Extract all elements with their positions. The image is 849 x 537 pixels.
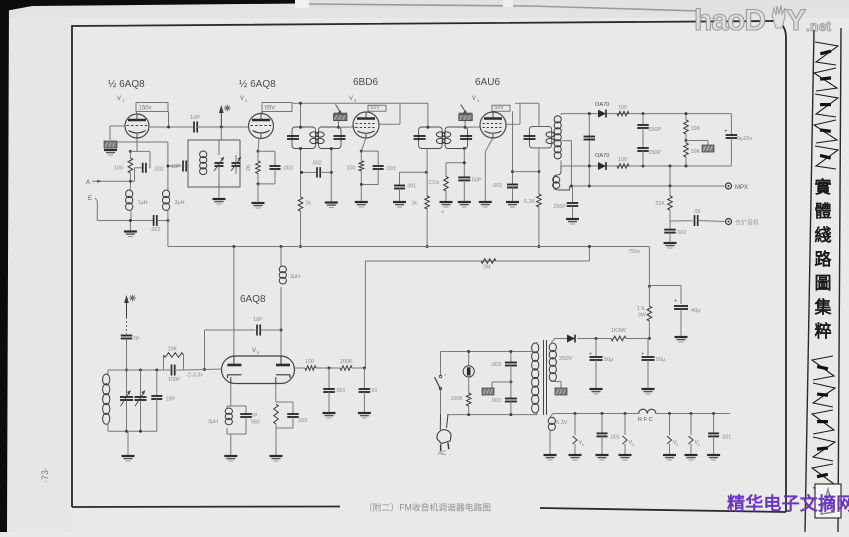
svg-text:50V: 50V [495,105,505,111]
resistor 1K IFT2 return [425,196,430,209]
ground below 50u no1 [590,388,603,390]
capacitor 50P (IFT2 return) [463,147,466,150]
resistor 1K IFT1 return [298,197,303,211]
junction detector node lower [642,165,645,168]
svg-text:10K: 10K [168,347,178,353]
schematic frame [72,21,786,512]
junction cap top [588,112,591,115]
rectifier line [554,338,567,340]
ground below .001 right [707,454,720,456]
wire heater winding to rail [550,414,553,418]
resistor V5 cathode [275,384,277,403]
tube V1 (1/2 6AQ8 RF amp) [125,114,149,138]
ground below right cathode [270,455,283,457]
ground below V4 heater [569,454,582,456]
junction bus IFT1 [299,245,302,248]
svg-text:250P: 250P [553,204,566,210]
scan edge: second notch [503,0,513,7]
wire grid-leak line to 3uH top [110,141,168,143]
junction line-filter mid [509,381,512,384]
grid capacitor of V4 (hatched) [459,112,473,114]
capacitor .003 upper [510,352,512,363]
junction lamp bottom [467,413,470,416]
junction rectifier output [648,337,651,340]
svg-text:1 K: 1 K [637,306,645,312]
svg-text:3W: 3W [638,313,647,319]
scan edge: top-left black wedge [0,0,302,12]
svg-text:10K: 10K [691,149,701,155]
interstage tank box [188,140,240,187]
svg-text:.net: .net [806,18,831,34]
inductor 3uH (RF choke) [163,190,170,198]
resistor 2M (AFC) [481,259,496,264]
capacitor .002 cathode [292,402,294,414]
junction bus at oscillator left [232,245,235,248]
resistor 6.2K (detector return) [537,194,542,207]
plate supply line y104 [292,102,428,104]
svg-text:AC: AC [438,451,447,457]
svg-text:15P: 15P [166,397,176,403]
ground below .001 [393,201,406,203]
right strip: decorative glyphs (top) [814,42,838,169]
svg-text:50μ: 50μ [604,357,613,363]
wire bus to B+ node [648,247,650,287]
capacitor 15P [156,370,158,396]
oscillator coil [107,370,109,374]
svg-text:.002: .002 [150,227,161,233]
svg-text:1k: 1k [306,201,312,207]
AFC line [365,260,589,262]
svg-text:250P: 250P [649,150,662,156]
heater cap .001 left [601,412,604,415]
svg-text:.002: .002 [492,183,503,189]
svg-text:100: 100 [305,359,314,365]
svg-text:100: 100 [347,166,356,172]
right strip: bottom logo box [815,484,841,518]
svg-text:50μ: 50μ [656,357,665,363]
capacitor .002 V3 grid return [302,171,317,173]
scan edge: left black strip [0,0,9,532]
ground pad (hatched) at 10K mid [702,145,714,152]
junction lamp top [467,350,470,353]
junction antenna A node [129,180,132,183]
svg-text:2K: 2K [246,164,252,171]
svg-text:½ 6AQ8: ½ 6AQ8 [108,79,145,90]
svg-text:½ 6AQ8: ½ 6AQ8 [239,79,276,90]
capacitor .001 output [328,368,330,389]
wire feedback down to grid [204,330,206,370]
svg-text:MPX: MPX [735,185,748,191]
right strip: vertical title 實體綫路圖集粹 [814,177,833,341]
svg-text:A: A [86,180,90,186]
wire cathode network to antenna node [129,173,131,190]
grid capacitor of V1 (hatched) [104,141,117,148]
ground below V2 cathode [252,202,265,204]
inductor 1uH (antenna coil) [126,190,133,198]
wire 220K to ground [445,191,447,202]
svg-text:.002: .002 [311,161,322,167]
junction 10K top [685,112,688,115]
svg-text:V: V [252,348,256,354]
power transformer core [543,340,545,415]
wire to 200K [316,367,340,369]
tube V4 (6AU6 IF amp) [480,112,506,138]
power transformer HV secondary [549,343,556,352]
capacitor .002 V1 cathode [149,151,151,167]
plate supply line to detector feed [515,102,539,104]
B+ bus line [168,246,650,248]
svg-text:560: 560 [251,420,260,426]
svg-text:綫: 綫 [815,225,832,245]
svg-text:10P: 10P [253,317,263,323]
wire V1 cathode down [136,139,138,152]
capacitor 7P [121,335,133,337]
junction B+ top [648,285,651,288]
resistor 100 V3 cathode [359,161,364,171]
junction grid node [203,368,206,371]
resistor 100 output [305,366,316,371]
wire to 40u cap [649,285,681,287]
ground below V3 cathode [355,201,368,203]
wire IFT2 return to bus [426,208,428,247]
wire 10K mid to ground pad [686,140,708,142]
svg-text:22K: 22K [655,201,665,207]
svg-text:·73·: ·73· [40,467,50,483]
variable capacitor 1 (tank) [218,140,220,155]
resistor 1K 3W (filter) [648,286,650,306]
svg-text:.002: .002 [297,418,308,424]
rectifier diode [567,335,575,343]
AGC arrow into V4 grid [461,105,466,113]
capacitor .01 [363,368,365,389]
pilot lamp [468,352,470,367]
junction 15P top [155,369,158,372]
wire bus down to tube left [233,247,235,357]
svg-text:實: 實 [815,177,832,197]
resistor 100 lower [617,164,629,169]
capacitor 7P 560 [245,406,247,414]
wire V1 grid to grid capacitor [110,125,125,127]
ground below heater winding [544,454,557,456]
svg-text:去扩音机: 去扩音机 [735,219,759,227]
right strip: decorative glyphs (bottom) [812,356,835,488]
audio output terminal [726,219,732,225]
inductor 3uH osc plate [280,247,282,267]
svg-text:10K: 10K [691,126,701,132]
wire detector rail to MPX line [669,166,671,186]
svg-text:7P: 7P [133,337,140,343]
svg-text:-2-3.3v: -2-3.3v [186,373,203,379]
haoDIY.net watermark logo [694,4,831,37]
ground below V1 heater [663,454,676,456]
resistor 10K upper [685,114,687,120]
variable capacitor osc 1 [126,370,128,397]
junction AFC-bus [588,245,591,248]
capacitor 250P de-emphasis [572,186,574,203]
wire IFT2 secondary top to V4 grid cap [464,121,466,128]
junction bus IFT2 [426,245,429,248]
svg-text:6AU6: 6AU6 [475,77,500,88]
svg-text:V: V [240,96,244,102]
heater tap V2 [690,412,693,415]
junction at tuning line [220,126,223,129]
wire 3uH bottom to bus [167,210,169,246]
ground below 50P [458,201,471,203]
wire IFT2 primary bottom down [426,149,428,198]
IF transformer T1 secondary tank [319,127,342,149]
electrolytic 50u no1 [595,339,597,358]
junction primary top [509,350,512,353]
wire IFT2 secondary bottom to 220K [446,162,464,164]
svg-text:.002: .002 [676,230,687,236]
wire mid tap to ground pad [492,381,511,383]
electrolytic 40u [674,305,688,307]
svg-text:6BD6: 6BD6 [353,77,378,88]
svg-text:粹: 粹 [815,321,832,341]
capacitor .002 screen bypass [512,111,514,184]
wire V5 plate output [293,367,305,369]
svg-text:95V: 95V [265,106,276,112]
capacitor .002 (antenna) [97,220,153,222]
wire down to interstage tank [220,127,222,140]
voltage box 50V at V4 plate [492,105,510,111]
svg-text:3μH: 3μH [208,419,218,425]
wire secondary bottom line [561,165,731,167]
svg-text:1K3W: 1K3W [611,328,627,334]
svg-text:200K: 200K [340,359,353,365]
wire IFT1 primary feed up to supply line [300,103,302,127]
junction bus detector [537,245,540,248]
wire detector feed down [538,103,540,126]
svg-text:250P: 250P [649,127,662,133]
IF transformer T1 primary tank [292,127,316,149]
svg-text:haoD: haoD [694,4,765,37]
detector tertiary coil [554,166,570,190]
scan edge: top thin line right of notch [309,4,700,11]
svg-text:體: 體 [815,202,832,221]
AC plug [435,428,455,452]
svg-text:5μ25v: 5μ25v [737,136,753,142]
svg-text:250V: 250V [559,356,573,362]
svg-text:.001: .001 [335,388,346,394]
resistor 10K lower [685,141,687,144]
MPX terminal [726,183,732,189]
wire heater winding bottom to ground [549,430,551,455]
electrolytic 5u 25V [730,114,732,135]
wire 1K to bus [300,211,302,247]
junction var cap 2 top [139,369,142,372]
ground below 220K [440,201,453,203]
wire tank bottom to ground [127,431,129,456]
capacitor 10P coupling [193,122,195,133]
svg-text:1μH: 1μH [138,200,148,206]
gang tuning marker (osc) [126,299,128,317]
capacitor 250P lower [642,141,644,149]
ground pad (hatched) HV return [555,388,567,395]
wire AFC down to audio node [364,261,366,368]
heater winding 6.3V [548,417,555,424]
svg-text:100: 100 [114,166,123,172]
heater tap V3 [624,412,627,415]
capacitor .001 (screen bypass) [399,172,401,185]
junction .001 [328,367,331,370]
grid capacitor of V3 (hatched) [334,112,348,114]
svg-text:100: 100 [618,157,627,163]
svg-text:R F C: R F C [638,417,653,423]
svg-text:（附二）FM收音机调谐器电路图: （附二）FM收音机调谐器电路图 [364,502,491,513]
svg-text:150v: 150v [139,106,152,112]
svg-text:V: V [349,96,353,102]
wire secondary top line [561,113,731,115]
svg-text:精华电子文摘网: 精华电子文摘网 [727,493,849,514]
wire IFT1 secondary bottom down [330,149,332,203]
heater tap V4 [574,412,577,415]
wire V3 plate to supply line [380,123,401,125]
wire V3 cathode to ground [360,183,363,186]
svg-text:.003: .003 [385,166,396,172]
svg-text:.05: .05 [693,209,701,215]
tube V3 (6BD6 IF amp) [353,112,379,138]
tube V2 (1/2 6AQ8 mixer) [249,114,274,139]
svg-text:6.3V: 6.3V [556,420,568,426]
junction 7P column [125,369,128,372]
svg-text:10P: 10P [190,115,200,121]
wire right cathode to ground [275,428,277,456]
svg-text:V: V [117,96,121,102]
ground below V1 grid cap [104,149,117,151]
ground below V2 heater [685,454,698,456]
variable capacitor osc 2 [140,370,142,397]
capacitor 10P feedback [205,329,256,331]
wire V2 plate to 95V box [260,112,262,114]
detector transformer primary tank [529,126,551,147]
wire IFT1 secondary top to V3 grid cap [338,121,340,128]
svg-text:.003: .003 [491,362,502,368]
capacitor 100P (grid) [164,369,171,371]
ground below V3 heater [619,454,632,456]
junction 22K top at detector rail [669,165,672,168]
wire 10P cap to V2 grid [197,126,249,128]
junction cap bottom [588,165,591,168]
svg-text:+: + [674,299,678,305]
capacitor 250P upper [642,114,644,125]
tube V5 horizontal envelope (6AQ8 oscillator) [222,356,295,384]
wire primary bottom down [538,148,540,194]
wire IFT1 primary bottom to bus via 1K [300,149,302,198]
junction tank tap [166,165,169,168]
resistor 100 upper [617,111,629,116]
svg-text:OA70: OA70 [595,153,609,159]
junction IFT1 feed [299,102,302,105]
primary top rail [441,351,538,353]
svg-text:V: V [472,96,476,102]
right margin strip borders [805,28,841,532]
wire grid line [205,368,222,371]
svg-text:.001: .001 [721,435,731,441]
heater rail [553,413,639,415]
resistor 100K (lamp) [466,393,471,406]
resistor 100 V1 cathode [128,158,133,173]
wire 200K to AFC node [352,367,365,369]
svg-text:750v: 750v [628,249,640,255]
IF transformer T2 secondary tank [445,127,468,149]
ground below V4 cathode [479,201,492,203]
resistor 1K3W horizontal [611,336,626,341]
svg-text:1k: 1k [412,201,418,207]
svg-text:E: E [88,196,92,202]
junction 10K bottom [685,165,688,168]
ground below tank [213,198,226,200]
svg-text:100: 100 [618,105,627,111]
svg-text:6AQ8: 6AQ8 [240,294,266,305]
diode OA70 lower [598,162,606,170]
mains switch [440,352,442,377]
RFC choke [639,409,656,413]
svg-text:100P: 100P [168,377,181,383]
ground below .002 audio [664,242,677,244]
capacitor .003 V2 cathode [258,150,275,152]
svg-text:220k: 220k [428,180,440,186]
capacitor .003 lower [510,382,512,399]
wire V2 cathode down [258,139,259,152]
svg-text:40μ: 40μ [691,308,700,314]
capacitor 10P tank tap [168,165,181,167]
junction 22K tap [669,185,672,188]
svg-text:3μH: 3μH [175,200,185,206]
voltage box 150V at V1 plate [136,103,168,112]
capacitor .003 (V3 cathode) [361,150,378,152]
svg-text:100K: 100K [450,396,463,402]
center tap wire [562,140,571,142]
wire V2 cathode network to ground [257,182,260,185]
ground below .002 screen [506,201,519,203]
svg-text:3μH: 3μH [290,274,300,280]
ground below 40u [675,336,688,338]
junction feedback [280,329,283,332]
electrolytic 50u no2 [647,339,649,358]
svg-text:92V: 92V [371,105,381,111]
HV secondary return to ground pad [551,381,561,383]
svg-text:.003: .003 [491,398,502,404]
ground below 50u no2 [642,388,655,390]
heater cap .001 right [712,412,715,415]
ground below IFT1 secondary [325,201,338,203]
svg-text:.001: .001 [406,184,416,190]
wire V1 plate line to 10P cap [149,126,193,128]
junction .01 [363,367,366,370]
junction 50u no1 [595,337,598,340]
power transformer primary winding [532,343,539,353]
wire tank bottom to ground [218,187,220,199]
tank coil [200,151,207,158]
primary bottom rail [447,414,537,416]
scan edge: top notch tab [295,0,309,8]
svg-text:OA70: OA70 [595,102,609,108]
junction detector node upper [642,112,645,115]
wire V3 cathode down [361,138,366,151]
wire V4 cathode down [485,138,493,152]
svg-text:.002: .002 [154,167,165,173]
gang tuning marker (top) [220,109,222,127]
svg-text:.003: .003 [282,165,293,171]
ground pad (hatched) line filter [482,388,494,395]
inductor 3uH cathode [227,405,246,407]
junction primary bottom [509,413,512,416]
svg-text:.001: .001 [610,435,620,441]
svg-text:7P: 7P [251,413,258,419]
MPX output line [570,185,725,187]
IF transformer T2 primary tank [419,127,443,149]
